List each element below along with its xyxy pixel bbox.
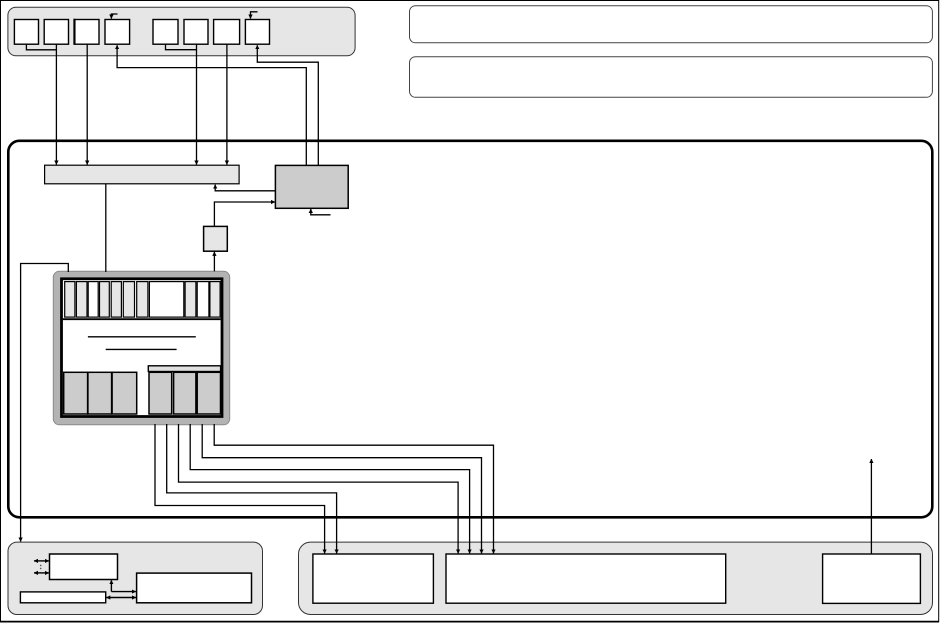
feedback arrow from far right device box: [870, 459, 872, 554]
wire control unit to address bar: [215, 185, 275, 191]
top cell t2: [76, 282, 87, 318]
ellipsis dot 2: [40, 568, 42, 570]
top cell t11: [210, 282, 220, 318]
top cell t10 white: [197, 282, 209, 318]
top cell t4: [100, 282, 110, 318]
wire latch to control unit: [214, 202, 275, 226]
top cell t5: [111, 282, 121, 318]
register box 2: [44, 20, 68, 45]
connector io box3 to io box1 vertical arrow: [110, 580, 112, 591]
data wire 1 memory to device box left: [155, 424, 325, 553]
register box 6: [184, 20, 208, 45]
io box 2: [20, 592, 105, 603]
main system boundary: [8, 141, 932, 518]
device box right: [446, 554, 726, 603]
text line 1: [88, 336, 196, 338]
text line 2: [106, 348, 177, 350]
bottom cell b3: [112, 372, 137, 414]
wire control unit to register 4: [117, 45, 306, 165]
top cell t3 white: [88, 282, 98, 318]
I/O panel bottom left: [8, 542, 263, 614]
top cell t8 wide white: [149, 282, 183, 318]
latch box: [204, 226, 228, 251]
bottom cell b1: [64, 372, 88, 414]
info box B top right: [410, 57, 933, 98]
bottom cell b2: [88, 372, 112, 414]
data wire 2 memory to device box left: [167, 424, 337, 553]
connector register5 to bus wire: [166, 45, 197, 50]
memory block outer frame: [53, 271, 229, 425]
control unit: [275, 165, 348, 208]
hook arrow into register 4 top: [111, 14, 117, 19]
register file panel: [8, 7, 355, 56]
register box 3 bold left edge: [73, 19, 75, 45]
data wire 3 memory to device box right: [179, 424, 459, 553]
top cell t9: [185, 282, 196, 318]
io box 3: [137, 573, 252, 603]
memory block inner frame: [62, 279, 223, 417]
wire memory block to latch: [213, 252, 215, 271]
bidirectional arrow io box2 to io box3: [106, 597, 136, 599]
data wire 4 memory to device box right: [190, 424, 469, 553]
hook arrow into control unit bottom: [311, 209, 331, 215]
devices panel bottom middle: [299, 542, 933, 614]
top cell t7: [137, 282, 148, 318]
bottom cell b4: [149, 372, 172, 414]
device box left: [313, 554, 434, 603]
bottom cell b6: [197, 372, 220, 414]
register box 8: [245, 20, 269, 45]
bidirectional arrow 2 at io box 1: [34, 572, 49, 574]
data wire 6 memory to device box right: [214, 424, 493, 553]
data wire 5 memory to device box right: [202, 424, 481, 553]
wire register3 to address bar: [86, 45, 88, 165]
connector io box3 to io box1 horizontal arrow: [111, 591, 135, 593]
address bar: [45, 165, 240, 184]
device box far right: [823, 554, 921, 603]
bottom cell b5: [174, 372, 196, 414]
register box 3: [74, 20, 99, 45]
wire control unit to register 8: [257, 45, 318, 165]
ellipsis dot 1: [40, 565, 42, 567]
register box 4: [105, 20, 130, 45]
register box 7: [214, 20, 240, 45]
register box 5: [153, 20, 178, 45]
wire memory to io panel: [21, 264, 69, 542]
io box 1: [50, 554, 118, 580]
wire register6 to address bar: [196, 45, 198, 165]
wire register7 to address bar: [226, 45, 228, 165]
hook arrow into register 8 top: [251, 12, 258, 19]
info box A top right: [410, 6, 933, 43]
connector register1 to bus wire: [26, 45, 56, 50]
light strip above bottom-right cells: [148, 366, 220, 372]
register box 1: [14, 20, 38, 45]
top cell t1: [65, 282, 75, 318]
page bottom border thick: [0, 621, 939, 623]
top cell t6: [123, 282, 134, 318]
wire register2 to address bar: [55, 45, 57, 165]
bidirectional arrow 1 at io box 1: [34, 560, 49, 562]
wire address bar to memory block: [105, 184, 107, 272]
divider line under top cells: [63, 318, 221, 320]
